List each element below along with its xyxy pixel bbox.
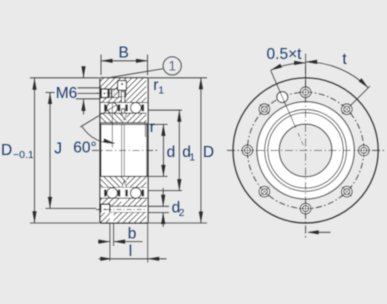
dimension D	[200, 78, 202, 223]
fixing hole at 45 deg	[342, 104, 352, 114]
front view: flange face annulus	[257, 102, 354, 199]
outer ring bottom hatched band	[100, 213, 148, 223]
arc dimension 0.5 x t	[271, 63, 306, 70]
dimension B	[100, 55, 102, 76]
radial line to 45deg hole	[351, 86, 370, 105]
right face inner chamfer strips	[146, 78, 147, 122]
lube radial dash-dot near center	[297, 131, 303, 145]
ball lower-right	[131, 188, 142, 199]
svg-text:D: D	[203, 144, 214, 161]
callout circle 1	[163, 57, 181, 75]
svg-text:d: d	[167, 144, 176, 161]
set screw square (lower)	[101, 204, 110, 214]
dimension l (slot position)	[147, 223, 149, 263]
lower ball zone	[101, 188, 148, 199]
svg-text:r: r	[150, 119, 155, 136]
ball upper-right	[131, 103, 142, 114]
ball upper-left	[107, 103, 118, 114]
grease channel between ball rows	[121, 97, 124, 103]
bore strip (between section halves)	[101, 124, 147, 176]
section outline	[100, 77, 148, 79]
grease fitting lower body	[119, 90, 126, 97]
fixing hole at 90 deg	[300, 87, 310, 97]
bottom reference arrow	[309, 231, 331, 233]
cage blocks upper	[104, 104, 107, 111]
horizontal centerline	[227, 149, 384, 151]
outer diameter circle	[233, 78, 378, 223]
dimension D-0.1	[34, 78, 36, 223]
fixing hole at 270 deg	[300, 203, 310, 213]
small dim: face to screw hole depth	[83, 67, 85, 78]
V notch upper	[122, 113, 127, 120]
fixing hole at 0 deg	[359, 145, 369, 155]
inner rings upper band, split hatch	[101, 113, 122, 123]
bearing axis centerline	[92, 149, 157, 151]
bolt circle (dash-dot)	[247, 92, 363, 208]
ball lower-left	[107, 188, 118, 199]
fixing hole at 135 deg	[259, 104, 269, 114]
upper screw axis centerline	[97, 92, 116, 94]
bearing cross-section: outer ring upper half hatched	[100, 78, 148, 103]
inner ring shoulder circle	[268, 113, 343, 188]
outer ring lower hatched band	[100, 198, 148, 206]
svg-text:B: B	[119, 45, 129, 62]
lubrication slot in bottom band	[110, 213, 114, 223]
svg-text:J: J	[54, 141, 62, 158]
dimension b (lube slot width)	[109, 223, 111, 261]
svg-text:−0.1: −0.1	[13, 149, 34, 161]
dimension d	[149, 123, 168, 125]
grease channel nozzle	[122, 109, 125, 114]
fixing hole at 180 deg	[242, 145, 252, 155]
svg-text:M6: M6	[56, 85, 78, 102]
inner ring split seam	[121, 124, 123, 176]
V notch lower	[122, 181, 127, 188]
dimension J	[49, 93, 51, 209]
fixing hole at 315 deg	[342, 186, 352, 196]
dimension d2	[149, 205, 170, 207]
lubrication hole at half pitch	[277, 92, 288, 103]
seal gap outer circle (d1)	[265, 109, 347, 191]
top face extension line	[30, 77, 99, 79]
lube hole radial line	[271, 71, 296, 128]
svg-text:t: t	[342, 51, 347, 68]
vertical reference line above top hole	[305, 54, 307, 87]
screw thread zone	[108, 90, 112, 97]
bottom face extension line	[30, 222, 99, 224]
60 degree contact angle annotation	[80, 105, 116, 127]
svg-text:b: b	[128, 226, 137, 243]
fixing hole at 225 deg	[259, 186, 269, 196]
leader from callout 1	[111, 69, 164, 78]
grease fitting upper square	[118, 81, 127, 91]
lower screw axis centerline	[96, 209, 146, 211]
upper ball zone	[101, 103, 148, 114]
lower section: inner rings band	[101, 176, 122, 187]
svg-text:1: 1	[158, 85, 164, 97]
svg-text:0.5×t: 0.5×t	[267, 46, 303, 63]
bore circle	[279, 124, 332, 177]
set screw M6 square (upper)	[101, 89, 108, 98]
svg-text:1: 1	[189, 152, 195, 164]
vertical centerline	[305, 66, 307, 239]
svg-text:l: l	[129, 243, 132, 260]
lower screw hole strip	[100, 206, 147, 212]
svg-text:1: 1	[168, 59, 176, 74]
svg-text:D: D	[1, 142, 12, 159]
svg-text:2: 2	[179, 207, 185, 219]
dimension d1	[149, 109, 182, 111]
svg-text:60°: 60°	[73, 140, 96, 157]
arc dimension t	[306, 62, 369, 88]
